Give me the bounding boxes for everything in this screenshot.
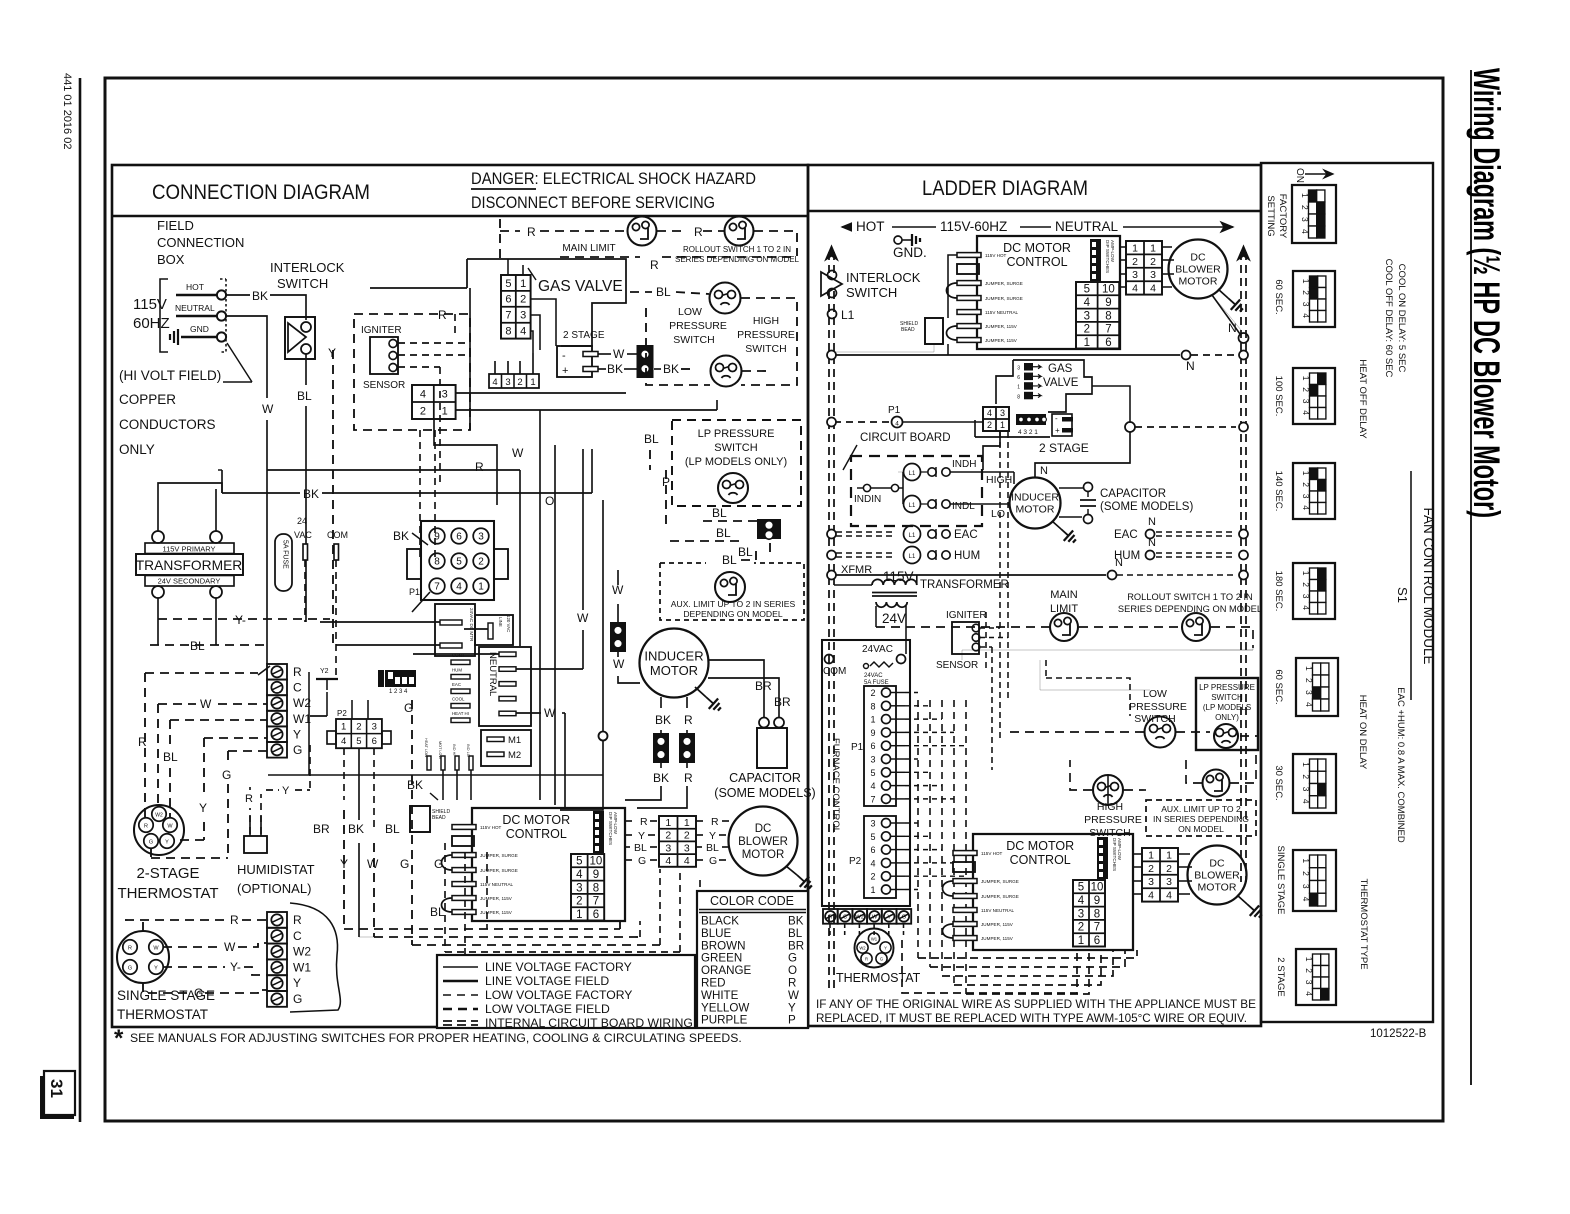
svg-text:R: R bbox=[245, 793, 253, 805]
dip S1-2 60 sec bbox=[1293, 271, 1335, 327]
svg-text:ROLLOUT SWITCH 1 TO 2 IN: ROLLOUT SWITCH 1 TO 2 IN bbox=[683, 245, 791, 254]
svg-text:4: 4 bbox=[1301, 410, 1311, 415]
svg-text:BK: BK bbox=[348, 822, 364, 836]
color code box bbox=[697, 891, 808, 1028]
dashed enclosure pressure switches bbox=[646, 308, 710, 385]
svg-text:PRESSURE: PRESSURE bbox=[737, 329, 795, 341]
svg-text:1: 1 bbox=[1078, 935, 1084, 947]
gas valve lower outline bbox=[975, 436, 1050, 438]
neutral box bbox=[479, 647, 531, 726]
svg-text:30 SEC.: 30 SEC. bbox=[1273, 765, 1284, 800]
svg-text:W: W bbox=[872, 915, 878, 921]
relay INDH bbox=[904, 464, 921, 481]
aux limit switch bbox=[715, 572, 745, 602]
svg-text:BLOWER: BLOWER bbox=[738, 836, 788, 848]
svg-text:R: R bbox=[640, 816, 648, 828]
svg-text:BK: BK bbox=[788, 915, 804, 928]
wire BL dashed bbox=[157, 619, 159, 645]
svg-text:5: 5 bbox=[505, 278, 511, 290]
wire W vertical long bbox=[469, 288, 471, 430]
svg-text:XFMR: XFMR bbox=[841, 564, 872, 576]
bottom bus risers bbox=[619, 921, 621, 929]
svg-text:(HI VOLT FIELD): (HI VOLT FIELD) bbox=[119, 368, 221, 383]
svg-text:(SOME MODELS): (SOME MODELS) bbox=[714, 786, 815, 800]
svg-text:24VAC: 24VAC bbox=[862, 644, 893, 655]
svg-text:R: R bbox=[527, 225, 536, 239]
svg-text:P2: P2 bbox=[849, 856, 862, 867]
svg-text:4: 4 bbox=[1301, 897, 1311, 902]
svg-text:24: 24 bbox=[297, 516, 307, 526]
svg-text:CONDUCTORS: CONDUCTORS bbox=[119, 417, 216, 432]
svg-text:8: 8 bbox=[1105, 310, 1111, 322]
svg-text:4: 4 bbox=[684, 855, 690, 867]
svg-text:W: W bbox=[262, 402, 274, 416]
wire BK horizontal bbox=[222, 492, 300, 494]
svg-text:4: 4 bbox=[895, 421, 899, 428]
svg-text:BK: BK bbox=[653, 771, 669, 785]
svg-text:R: R bbox=[230, 913, 239, 927]
P2 dashed stubs bbox=[905, 822, 918, 824]
low pressure switch bbox=[710, 283, 741, 314]
inducer BK R lower leads bbox=[660, 763, 662, 768]
wire Y table to motor bbox=[696, 834, 705, 836]
svg-text:2: 2 bbox=[576, 896, 582, 908]
svg-text:IGNITER: IGNITER bbox=[361, 325, 402, 336]
wire from transformer primary left up bbox=[158, 490, 216, 510]
svg-text:LOW: LOW bbox=[678, 306, 702, 318]
svg-text:LP PRESSURE: LP PRESSURE bbox=[698, 428, 775, 440]
svg-text:DANGER: ELECTRICAL SHOCK HAZA: DANGER: ELECTRICAL SHOCK HAZARD bbox=[471, 170, 756, 188]
svg-text:INDH: INDH bbox=[952, 459, 976, 470]
svg-text:THERMOSTAT: THERMOSTAT bbox=[836, 971, 921, 985]
relay INDL bbox=[904, 496, 921, 513]
svg-text:G: G bbox=[434, 857, 443, 871]
wire bundle from transformer to P1 area bbox=[221, 470, 223, 493]
svg-text:(SOME MODELS): (SOME MODELS) bbox=[1100, 501, 1193, 513]
svg-text:G: G bbox=[880, 957, 883, 962]
svg-text:115V-60HZ: 115V-60HZ bbox=[940, 219, 1007, 234]
svg-text:SWITCH: SWITCH bbox=[714, 442, 757, 454]
svg-text:1012522-B: 1012522-B bbox=[1370, 1028, 1427, 1040]
wire W neutral down bbox=[226, 316, 267, 398]
humidistat lead R bbox=[249, 808, 251, 834]
svg-text:60 SEC.: 60 SEC. bbox=[1273, 279, 1284, 314]
svg-text:HOT: HOT bbox=[856, 219, 885, 234]
plug 24VAC DC MTR bbox=[435, 604, 475, 656]
svg-text:4: 4 bbox=[1301, 313, 1311, 318]
dashed verticals below bbox=[444, 843, 446, 952]
rollout switch bbox=[725, 217, 754, 246]
svg-text:R: R bbox=[711, 816, 719, 828]
thermostat stubs bbox=[829, 924, 831, 938]
svg-text:4: 4 bbox=[1301, 505, 1311, 510]
svg-text:G: G bbox=[788, 952, 797, 965]
svg-text:Y2: Y2 bbox=[320, 668, 329, 675]
svg-text:1: 1 bbox=[1301, 858, 1311, 863]
svg-text:Y: Y bbox=[887, 915, 891, 921]
svg-text:-: - bbox=[562, 350, 566, 362]
connector J3 (4 3 / 2 1) bbox=[412, 385, 456, 419]
svg-text:L1: L1 bbox=[841, 308, 855, 322]
svg-text:GND.: GND. bbox=[893, 245, 927, 260]
svg-text:2: 2 bbox=[1301, 482, 1311, 487]
dashed bus right end bbox=[754, 231, 797, 256]
svg-text:JUMPER, 115V: JUMPER, 115V bbox=[981, 922, 1014, 927]
svg-text:10: 10 bbox=[1091, 882, 1104, 894]
svg-text:JUMPER, 115V: JUMPER, 115V bbox=[981, 936, 1014, 941]
svg-text:COPPER: COPPER bbox=[119, 392, 176, 407]
svg-text:COOL ON DELAY: 5 SEC: COOL ON DELAY: 5 SEC bbox=[1396, 264, 1407, 373]
single stage thermostat bbox=[117, 931, 169, 983]
wire BL low pressure bbox=[630, 291, 652, 293]
svg-text:AUX. LIMIT UP TO 2: AUX. LIMIT UP TO 2 bbox=[1161, 804, 1241, 814]
svg-text:G: G bbox=[222, 768, 231, 782]
svg-text:DEPENDING ON MODEL: DEPENDING ON MODEL bbox=[683, 609, 783, 619]
svg-text:SWITCH: SWITCH bbox=[673, 334, 714, 346]
svg-text:W: W bbox=[167, 824, 173, 830]
svg-text:TRANSFORMER: TRANSFORMER bbox=[920, 579, 1009, 591]
color code rule bbox=[699, 909, 806, 911]
NEUTRAL terminal bbox=[176, 315, 217, 317]
svg-text:2: 2 bbox=[1304, 678, 1314, 683]
wire COM dashed down bbox=[335, 560, 337, 680]
svg-text:Wiring Diagram (½ HP DC Blower: Wiring Diagram (½ HP DC Blower Motor) bbox=[1466, 68, 1507, 518]
svg-text:4: 4 bbox=[1132, 283, 1138, 295]
fuse 5A FUSE bbox=[275, 534, 292, 591]
svg-text:W2: W2 bbox=[855, 915, 864, 921]
svg-text:115V NEUTRAL: 115V NEUTRAL bbox=[480, 882, 514, 887]
svg-text:ONLY: ONLY bbox=[119, 442, 155, 457]
igniter leads (ladder) bbox=[980, 627, 1000, 629]
svg-text:+: + bbox=[562, 365, 568, 377]
svg-text:SENSOR: SENSOR bbox=[363, 380, 405, 391]
wires U3 to table2 bbox=[1133, 853, 1142, 855]
humidistat symbol bbox=[244, 836, 267, 853]
wire long horizontal W bbox=[267, 469, 520, 471]
svg-text:INTERLOCK: INTERLOCK bbox=[270, 260, 345, 275]
LP pressure box (ladder) bbox=[1196, 678, 1258, 750]
svg-text:3: 3 bbox=[1166, 876, 1172, 888]
svg-text:DC: DC bbox=[1209, 858, 1225, 870]
wire G table to motor bbox=[696, 859, 705, 861]
svg-text:2: 2 bbox=[1301, 387, 1311, 392]
svg-text:6: 6 bbox=[456, 532, 462, 543]
svg-text:1: 1 bbox=[1000, 420, 1005, 430]
svg-text:JUMPER, SURGE: JUMPER, SURGE bbox=[981, 879, 1019, 884]
2-stage stat wire BL bbox=[170, 719, 267, 721]
svg-text:3: 3 bbox=[1300, 217, 1310, 222]
svg-text:2: 2 bbox=[478, 557, 484, 568]
svg-text:3: 3 bbox=[870, 755, 875, 765]
wire W single-stage bbox=[163, 946, 220, 948]
svg-text:115V PRIMARY: 115V PRIMARY bbox=[162, 545, 215, 554]
svg-text:2: 2 bbox=[1304, 968, 1314, 973]
svg-text:LINE VOLTAGE FACTORY: LINE VOLTAGE FACTORY bbox=[485, 960, 632, 974]
svg-text:EAC: EAC bbox=[954, 529, 978, 541]
svg-text:5: 5 bbox=[1078, 882, 1084, 894]
svg-text:LINE: LINE bbox=[498, 617, 503, 627]
DANGER underline bbox=[471, 188, 536, 190]
svg-text:BL: BL bbox=[644, 432, 659, 446]
svg-text:1: 1 bbox=[1301, 762, 1311, 767]
svg-text:BLUE: BLUE bbox=[701, 927, 732, 940]
svg-text:PRESSURE: PRESSURE bbox=[1129, 701, 1187, 713]
wire grid1 to INDH bbox=[983, 431, 1000, 470]
svg-text:3: 3 bbox=[684, 842, 690, 854]
svg-text:31: 31 bbox=[47, 1079, 66, 1098]
svg-text:ONLY): ONLY) bbox=[1215, 713, 1239, 722]
svg-text:1: 1 bbox=[520, 278, 526, 290]
svg-text:BLOWER: BLOWER bbox=[1194, 870, 1240, 882]
gas valve connector J1 bbox=[501, 275, 531, 339]
svg-text:CONTROL: CONTROL bbox=[1010, 853, 1071, 867]
igniter (ladder) bbox=[952, 622, 979, 654]
svg-text:2 STAGE: 2 STAGE bbox=[1039, 441, 1089, 455]
svg-text:7: 7 bbox=[1105, 324, 1111, 336]
svg-text:1: 1 bbox=[1300, 193, 1310, 198]
svg-text:DC: DC bbox=[1190, 252, 1206, 264]
svg-text:Y: Y bbox=[638, 830, 645, 842]
svg-text:2: 2 bbox=[517, 377, 522, 388]
svg-text:BL: BL bbox=[716, 526, 731, 540]
svg-text:1: 1 bbox=[1148, 849, 1154, 861]
junction block J7 bbox=[653, 733, 669, 763]
svg-text:N: N bbox=[1148, 516, 1156, 528]
field connection box outline bbox=[160, 279, 168, 352]
svg-text:PRESSURE: PRESSURE bbox=[669, 320, 727, 332]
svg-text:3: 3 bbox=[1150, 269, 1156, 281]
svg-text:W: W bbox=[512, 446, 524, 460]
svg-text:O: O bbox=[788, 964, 797, 977]
svg-text:LOW: LOW bbox=[1143, 688, 1167, 700]
svg-text:2: 2 bbox=[420, 405, 426, 417]
svg-text:C: C bbox=[843, 915, 847, 921]
svg-text:3: 3 bbox=[1301, 494, 1311, 499]
svg-text:DIP SWITCHES: DIP SWITCHES bbox=[1105, 240, 1110, 273]
svg-text:COOL: COOL bbox=[452, 697, 465, 702]
svg-text:R: R bbox=[684, 713, 693, 727]
svg-text:115V NEUTRAL: 115V NEUTRAL bbox=[985, 310, 1019, 315]
svg-text:SENSOR: SENSOR bbox=[936, 660, 978, 671]
svg-text:4: 4 bbox=[1304, 991, 1314, 996]
svg-text:THERMOSTAT TYPE: THERMOSTAT TYPE bbox=[1358, 878, 1369, 969]
svg-text:4: 4 bbox=[1150, 283, 1156, 295]
aux limit dashed box bbox=[660, 563, 804, 620]
capacitor leads (ladder) bbox=[1059, 487, 1083, 489]
svg-text:MOTOR: MOTOR bbox=[1016, 504, 1055, 516]
svg-text:BEAD: BEAD bbox=[901, 327, 915, 333]
svg-text:24V: 24V bbox=[882, 611, 906, 626]
svg-text:3: 3 bbox=[442, 388, 448, 400]
svg-text:P1: P1 bbox=[888, 405, 901, 416]
svg-text:1: 1 bbox=[1301, 376, 1311, 381]
svg-text:JUMPER, SURGE: JUMPER, SURGE bbox=[480, 868, 518, 873]
svg-text:LIMIT: LIMIT bbox=[1050, 603, 1078, 615]
svg-text:COLOR CODE: COLOR CODE bbox=[710, 894, 794, 908]
svg-text:G: G bbox=[902, 915, 907, 921]
svg-text:INDUCER: INDUCER bbox=[644, 648, 703, 663]
wire R to blower table bbox=[625, 820, 637, 822]
svg-text:MOTOR: MOTOR bbox=[1198, 882, 1237, 894]
svg-text:8: 8 bbox=[870, 701, 875, 711]
dashed bus R return bbox=[560, 256, 640, 258]
dip S1-3 100 sec bbox=[1293, 368, 1335, 424]
svg-text:W1: W1 bbox=[293, 960, 311, 974]
svg-text:CIRCUIT BOARD: CIRCUIT BOARD bbox=[860, 432, 951, 444]
svg-text:4: 4 bbox=[576, 869, 583, 881]
svg-text:7: 7 bbox=[434, 582, 440, 593]
wire O long vertical bbox=[599, 732, 608, 741]
wire INDH out bbox=[950, 471, 1014, 473]
svg-text:1: 1 bbox=[1150, 242, 1156, 254]
svg-text:2: 2 bbox=[665, 830, 671, 842]
blower connector table (ladder) bbox=[1126, 241, 1162, 295]
svg-text:3: 3 bbox=[505, 377, 510, 388]
svg-text:G: G bbox=[638, 855, 646, 867]
svg-text:2: 2 bbox=[1301, 774, 1311, 779]
svg-text:SWITCH: SWITCH bbox=[1134, 713, 1175, 725]
wire Y single-stage bbox=[163, 966, 225, 968]
svg-text:HEAT LOW: HEAT LOW bbox=[424, 738, 428, 758]
blower connector table 2 bbox=[1142, 848, 1178, 902]
svg-text:EAC: EAC bbox=[1114, 529, 1138, 541]
svg-text:1: 1 bbox=[1304, 666, 1314, 671]
svg-text:S1: S1 bbox=[1395, 587, 1410, 603]
rollout (ladder) bbox=[1182, 613, 1210, 641]
wire bundle igniter column verticals bbox=[439, 367, 441, 485]
legend LINE VOLTAGE FACTORY bbox=[443, 966, 478, 968]
main limit wires bbox=[876, 626, 1049, 628]
sheet title underline rule bbox=[1470, 70, 1472, 1085]
svg-text:BL: BL bbox=[656, 285, 671, 299]
svg-text:INTERNAL CIRCUIT BOARD WIRING: INTERNAL CIRCUIT BOARD WIRING bbox=[485, 1016, 693, 1030]
svg-text:140 SEC.: 140 SEC. bbox=[1273, 471, 1284, 512]
svg-text:HIGH: HIGH bbox=[753, 315, 779, 327]
svg-text:1: 1 bbox=[576, 909, 582, 921]
svg-text:441 01 2016 02: 441 01 2016 02 bbox=[61, 73, 73, 149]
low pressure switch (ladder) bbox=[1145, 717, 1176, 748]
2-stage stat wire W bbox=[158, 703, 196, 705]
svg-text:3: 3 bbox=[1301, 787, 1311, 792]
svg-text:SINGLE STAGE: SINGLE STAGE bbox=[1275, 846, 1286, 915]
svg-text:6: 6 bbox=[505, 294, 511, 306]
terminal 24VAC bbox=[303, 544, 308, 560]
capacitor C1 bbox=[759, 718, 769, 728]
left rail bbox=[828, 252, 830, 992]
svg-text:3: 3 bbox=[1301, 302, 1311, 307]
svg-text:9: 9 bbox=[1094, 895, 1100, 907]
svg-text:NEUTRAL: NEUTRAL bbox=[487, 652, 498, 696]
svg-text:-: - bbox=[1055, 414, 1058, 423]
ground symbol at GND bbox=[177, 329, 179, 345]
svg-text:N: N bbox=[1115, 557, 1123, 569]
pressure wires (ladder) bbox=[1090, 731, 1144, 733]
svg-text:2: 2 bbox=[1166, 863, 1172, 875]
high pressure switch bbox=[711, 356, 742, 387]
svg-text:BK: BK bbox=[663, 362, 679, 376]
wire G single-stage bbox=[143, 983, 190, 993]
svg-text:3: 3 bbox=[870, 819, 875, 829]
svg-text:JUMPER, SURGE: JUMPER, SURGE bbox=[981, 894, 1019, 899]
shield bead (ladder) bbox=[925, 318, 943, 344]
svg-text:G: G bbox=[293, 992, 302, 1006]
svg-text:HEAT HI: HEAT HI bbox=[452, 711, 469, 716]
page number 31 box bbox=[44, 1071, 75, 1115]
svg-text:115V: 115V bbox=[133, 296, 167, 313]
svg-text:3: 3 bbox=[1000, 408, 1005, 418]
svg-text:SEE MANUALS FOR ADJUSTING SWIT: SEE MANUALS FOR ADJUSTING SWITCHES FOR P… bbox=[130, 1031, 742, 1045]
2-stage stat wire R bbox=[145, 672, 258, 674]
svg-text:ON MODEL: ON MODEL bbox=[1178, 824, 1224, 834]
svg-text:DC MOTOR: DC MOTOR bbox=[1006, 839, 1074, 853]
terminal strip TB1 (R C W2 W1 Y G) bbox=[267, 664, 287, 680]
svg-text:1: 1 bbox=[1301, 471, 1311, 476]
svg-text:R: R bbox=[694, 225, 703, 239]
svg-text:IND HI: IND HI bbox=[452, 744, 456, 755]
svg-text:Y: Y bbox=[293, 727, 301, 741]
svg-text:115V: 115V bbox=[883, 569, 914, 584]
svg-text:INDL: INDL bbox=[952, 501, 975, 512]
junction block J8 bbox=[679, 733, 695, 763]
dc motor control U3 bbox=[973, 834, 1133, 950]
shield bead bbox=[410, 806, 430, 832]
dip S1-8 single stage bbox=[1293, 850, 1336, 911]
svg-text:W: W bbox=[612, 583, 624, 597]
svg-text:Y: Y bbox=[165, 840, 169, 846]
wires U2 left bbox=[948, 255, 957, 318]
dip S1-5 180 sec bbox=[1293, 563, 1335, 619]
junction block J6 bbox=[610, 622, 626, 652]
svg-text:3: 3 bbox=[1084, 310, 1090, 322]
dashed verticals centre bbox=[419, 430, 421, 560]
svg-text:Y: Y bbox=[709, 830, 716, 842]
svg-text:INDUCER: INDUCER bbox=[1011, 492, 1059, 504]
svg-text:W: W bbox=[613, 657, 625, 671]
svg-text:Y: Y bbox=[199, 801, 207, 815]
right rail bbox=[1240, 252, 1242, 882]
svg-text:BL: BL bbox=[385, 822, 400, 836]
P1 leader diagonal bbox=[412, 592, 430, 612]
svg-text:2: 2 bbox=[1301, 871, 1311, 876]
svg-text:2: 2 bbox=[1084, 324, 1090, 336]
dc motor control U1 bbox=[472, 808, 625, 921]
svg-text:1: 1 bbox=[1084, 337, 1090, 349]
svg-text:BL: BL bbox=[430, 905, 445, 919]
svg-text:LO: LO bbox=[991, 508, 1005, 520]
svg-text:SETTING: SETTING bbox=[1265, 195, 1276, 236]
ladder thermostat bbox=[855, 929, 894, 968]
2-stage thermostat bbox=[134, 805, 184, 855]
ladder header separator bbox=[808, 210, 1261, 212]
svg-text:L1: L1 bbox=[909, 554, 916, 560]
svg-text:P1: P1 bbox=[409, 587, 420, 597]
svg-text:INDIN: INDIN bbox=[854, 494, 881, 505]
svg-text:VAC: VAC bbox=[294, 530, 312, 540]
svg-text:4: 4 bbox=[1084, 297, 1091, 309]
svg-text:JUMPER, 115V: JUMPER, 115V bbox=[480, 910, 513, 915]
wire R table to motor bbox=[696, 820, 708, 822]
dip S1-4 140 sec bbox=[1293, 463, 1335, 519]
svg-text:Y: Y bbox=[282, 785, 290, 797]
dc motor control U2 bbox=[977, 236, 1120, 349]
svg-text:O: O bbox=[545, 494, 554, 508]
label 115V-60HZ bbox=[936, 218, 1020, 233]
LP pressure switch contact bbox=[718, 473, 748, 503]
svg-text:Y: Y bbox=[788, 1001, 796, 1014]
svg-text:3: 3 bbox=[520, 310, 526, 322]
svg-text:COM: COM bbox=[327, 530, 348, 540]
P2 leads down bbox=[343, 748, 345, 800]
